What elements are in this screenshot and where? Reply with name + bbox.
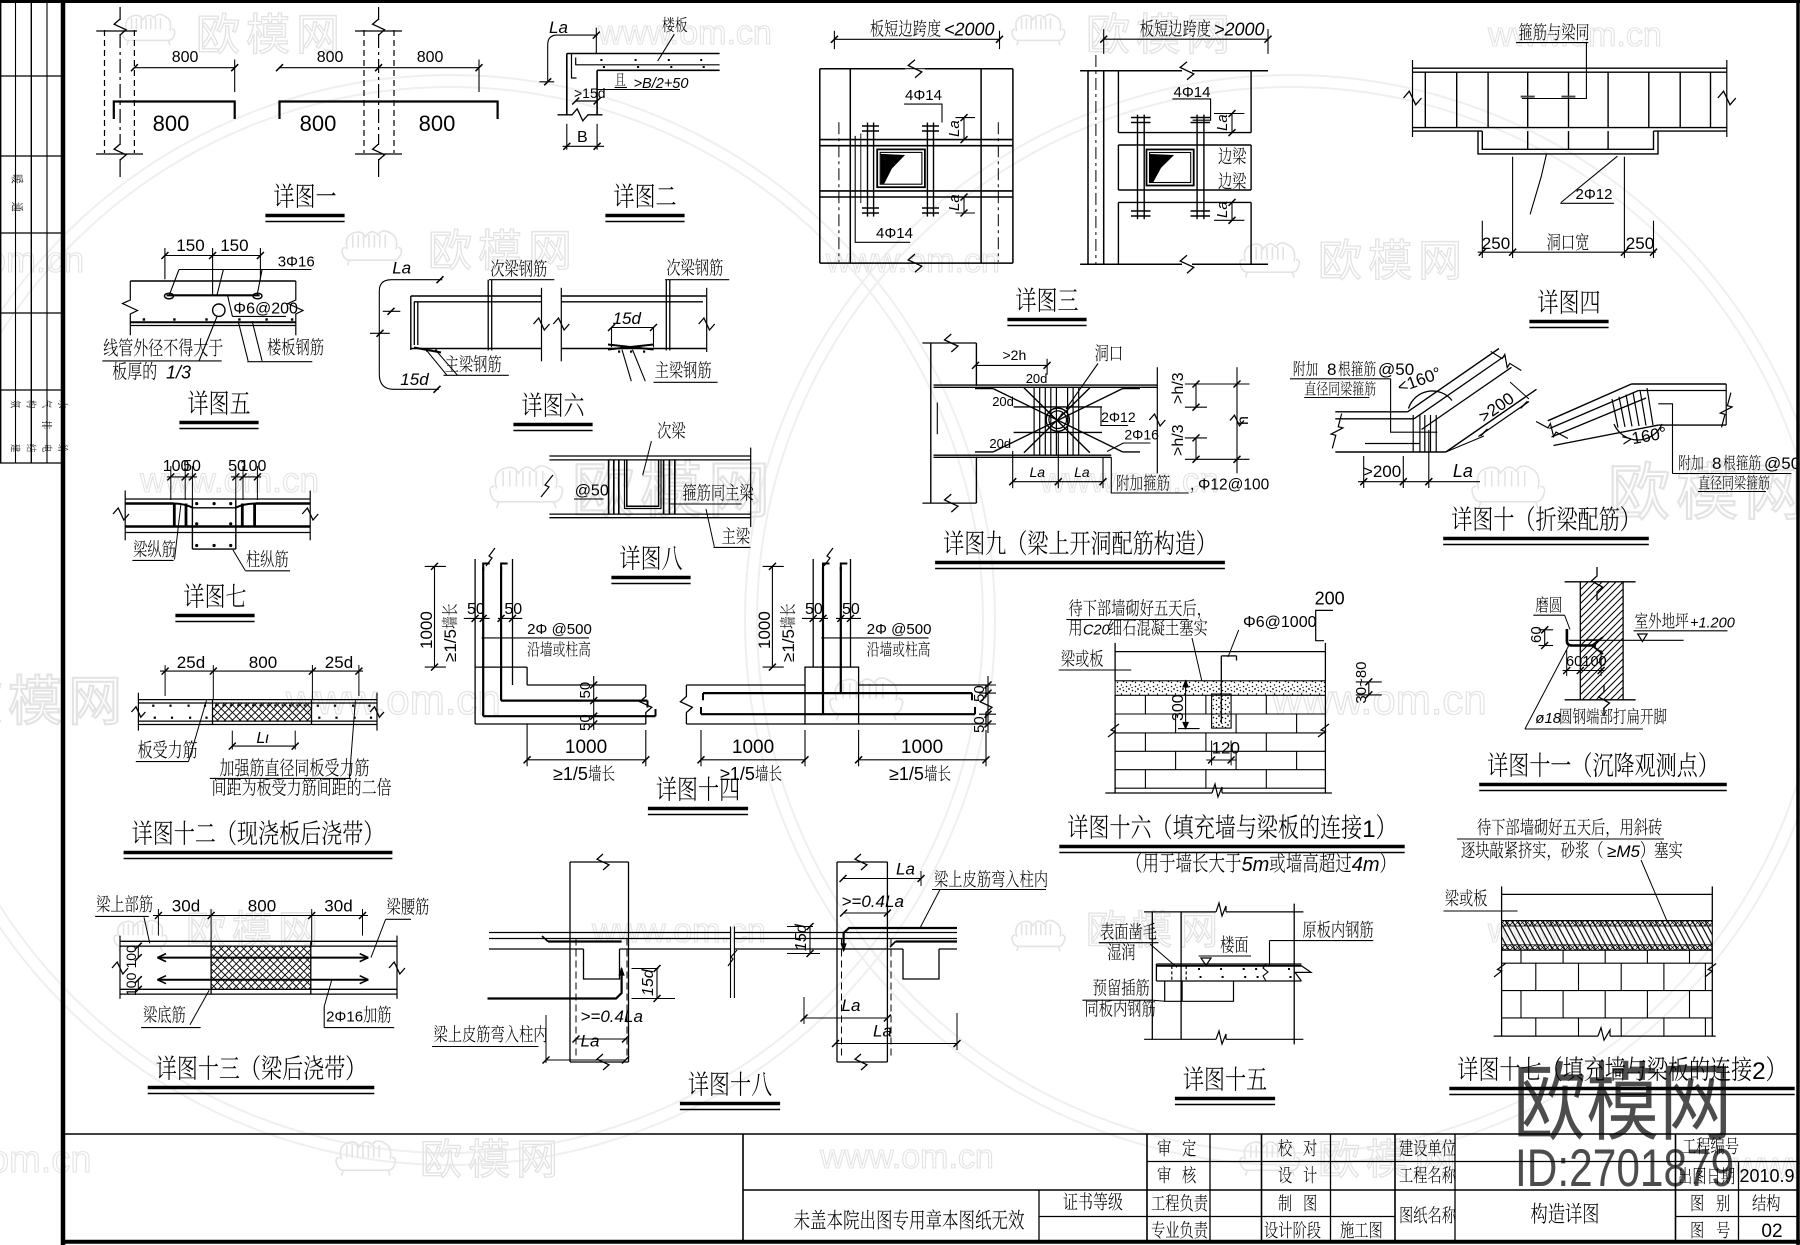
svg-text:Lι: Lι xyxy=(256,730,269,747)
detail17 brick joints row2 xyxy=(1535,963,1537,990)
svg-text:La: La xyxy=(1453,461,1473,481)
detail13 梁底筋 leader xyxy=(190,990,209,1024)
detail11 top break zigzag xyxy=(1592,567,1603,600)
detail14R left band end break xyxy=(680,685,692,724)
detail4 label underline and leader xyxy=(1516,42,1588,44)
detail5 rebar leader slants xyxy=(169,270,179,296)
svg-text:1/3: 1/3 xyxy=(166,363,191,383)
detail10L bent bar horizontal leg xyxy=(1365,443,1420,445)
detail14L wall inner vertical xyxy=(512,559,514,685)
svg-text:800: 800 xyxy=(248,897,276,916)
detail3 right La dim top xyxy=(1231,114,1233,133)
detail14R wall top break xyxy=(824,548,833,566)
svg-text:4Φ14: 4Φ14 xyxy=(876,225,913,242)
detail3 right La label top rotated xyxy=(1214,114,1231,131)
detail11 wall top cap xyxy=(1565,581,1636,583)
detail15 slab left end cap xyxy=(1155,964,1157,981)
detail15 原板内钢筋 leader xyxy=(1270,940,1302,942)
detail10L beam inner rebar line xyxy=(1335,418,1414,420)
detail5 slab bottom thin line xyxy=(130,325,295,327)
watermark row6 right sofa logo xyxy=(1240,1141,1299,1176)
svg-text:2Φ16: 2Φ16 xyxy=(1124,427,1159,443)
detail18L thick bottom rebar bent up xyxy=(488,969,622,999)
detail15 right vertical xyxy=(1293,904,1295,1045)
detail13 rotated label 100 upper xyxy=(123,945,139,969)
detail18R 15d dim xyxy=(809,927,811,954)
detail12 label 加强筋直径同板受力筋 xyxy=(220,758,234,776)
svg-text:60: 60 xyxy=(1528,626,1545,643)
detail18R column top cap with break xyxy=(837,861,887,863)
detail18L rotated label 15d xyxy=(640,968,657,996)
detail18R label 梁上皮筋弯入柱内 xyxy=(935,870,948,887)
detail3 right slab outer verticals xyxy=(1087,71,1089,265)
detail1 left column top cap xyxy=(96,30,137,32)
detail4 beam left end edge with break xyxy=(1412,60,1414,137)
svg-text:Φ6@200: Φ6@200 xyxy=(233,301,298,318)
detail17 label 梁或板 xyxy=(1445,889,1458,906)
watermark circle left xyxy=(0,75,995,1165)
svg-text:Φ12@100: Φ12@100 xyxy=(1198,477,1270,494)
detail3 right top dim xyxy=(1104,38,1268,40)
svg-text:4m: 4m xyxy=(1352,854,1380,876)
svg-text:≥1/5: ≥1/5 xyxy=(889,764,924,784)
svg-text:La: La xyxy=(1214,114,1231,131)
detail title 详图十四 xyxy=(657,776,677,801)
detail7 beam right end with break xyxy=(309,491,311,541)
detail6 vertical dim bars left xyxy=(383,310,401,312)
detail11 observation bolt bent bar xyxy=(1567,629,1596,646)
title block value 结构 xyxy=(1753,1194,1766,1211)
detail12 left end edge with break xyxy=(137,693,139,731)
detail10R label line2 直径同梁箍筋 xyxy=(1699,475,1710,489)
svg-text:2Φ12: 2Φ12 xyxy=(1576,186,1613,203)
detail14L rebar B vertical xyxy=(500,567,502,701)
detail4 drop stirrups xyxy=(1527,131,1529,149)
detail3 right slab panel edges right xyxy=(1250,71,1252,133)
svg-text:La: La xyxy=(581,1032,600,1051)
detail3 left slab outer verticals xyxy=(819,69,821,263)
detail title 详图十六 填充墙与梁板的连接1 xyxy=(1068,814,1088,839)
detail7 dims top left 100 50 xyxy=(167,476,197,478)
svg-text:La: La xyxy=(549,18,568,37)
svg-text:8: 8 xyxy=(1327,360,1336,379)
detail13 dim ext lines xyxy=(157,909,159,936)
detail5 slab bottom thick line xyxy=(130,321,295,323)
detail16 wall bottom cut line with break xyxy=(1105,792,1212,794)
detail8 label 主梁 xyxy=(722,527,735,543)
svg-text:50: 50 xyxy=(183,458,201,475)
detail14L rebar A end stub xyxy=(655,709,657,716)
detail11 elevation underline xyxy=(1634,630,1728,632)
title block cell 图别 xyxy=(1692,1194,1704,1211)
watermark row3 sofa logo xyxy=(490,466,563,508)
detail4 bottom dim line xyxy=(1478,251,1656,253)
svg-text:>=0.4La: >=0.4La xyxy=(842,892,904,911)
detail14R rebar B top hook xyxy=(841,564,848,572)
detail15 label 表面凿毛 xyxy=(1100,923,1113,941)
detail10R bend stirrups xyxy=(1612,399,1618,428)
detail10R label underline xyxy=(1673,473,1792,475)
detail2 wall left edge xyxy=(566,54,568,115)
detail11 elevation triangle xyxy=(1638,634,1647,642)
detail9 附加箍筋 leader xyxy=(1111,457,1188,493)
detail15 wall left pair verticals xyxy=(1151,912,1153,1039)
detail12 right leader xyxy=(349,700,355,778)
detail10R incline rebar1 xyxy=(1550,391,1639,429)
title block cell 施工图 xyxy=(1341,1221,1354,1238)
detail6 middle break line left xyxy=(541,288,543,362)
title block top line xyxy=(63,1133,1798,1135)
detail3 left opening with wedge xyxy=(877,149,925,187)
svg-text:www.om.cn: www.om.cn xyxy=(819,1138,994,1176)
detail16 rebar phi6 vertical xyxy=(1220,656,1222,723)
detail10L incline top xyxy=(1408,349,1499,412)
detail7 column rebar dots xyxy=(195,502,198,505)
detail14L label 沿墙或柱高 xyxy=(528,642,540,657)
detail13 upper rebar with arrow ends xyxy=(157,957,368,959)
detail3 right 4phi14 leader xyxy=(1172,99,1210,120)
detail9 label 洞口 xyxy=(1095,344,1108,361)
detail3 right slab panel edges left xyxy=(1117,71,1119,133)
detail1 right dim line 800 800 xyxy=(280,67,480,69)
detail7 beam bottom thin line xyxy=(125,532,310,534)
detail15 top cap with break xyxy=(1144,911,1216,913)
detail6 beam top line1 xyxy=(411,295,542,297)
detail12 crosshatch band xyxy=(213,703,312,721)
detail18L thick top rebar segment xyxy=(548,940,622,942)
detail18L top rebar end tick xyxy=(542,936,548,942)
svg-text:30d: 30d xyxy=(172,897,200,916)
detail18R La dim bottom left xyxy=(804,1017,887,1019)
detail11 label 室外地坪 +1.200 xyxy=(1635,612,1647,628)
detail3 right panel horizontal lines xyxy=(1118,132,1251,134)
detail9 horizontal bars 2phi12 xyxy=(1014,406,1102,408)
detail15 bottom cap with break xyxy=(1144,1038,1216,1040)
detail13 beam top double line xyxy=(120,940,397,942)
detail5 conduit circle xyxy=(213,304,225,316)
detail13 right end edge with break xyxy=(396,936,398,999)
detail10L dim >200 horizontal xyxy=(1358,481,1480,483)
detail17 brick joints row1 xyxy=(1520,950,1522,963)
watermark circle right xyxy=(745,75,1800,1165)
detail14R rebar B vertical xyxy=(840,567,842,693)
detail2 B dim ext lines xyxy=(566,124,568,150)
detail7 rebar dip left xyxy=(174,504,193,508)
detail10R incline top xyxy=(1548,384,1632,421)
detail10L left end break xyxy=(1331,414,1343,449)
detail18L U recess xyxy=(584,949,620,979)
detail15 原板内钢筋 underline xyxy=(1301,940,1373,942)
svg-text:4Φ14: 4Φ14 xyxy=(905,87,942,104)
svg-text:800: 800 xyxy=(419,111,456,136)
detail10L incline dim >200 xyxy=(1478,402,1529,437)
detail2 slab rebar line with left hook xyxy=(576,58,720,65)
detail3 label 边梁 lower xyxy=(1218,172,1231,189)
detail16 brick joints xyxy=(1144,695,1146,714)
watermark row5 right sofa logo xyxy=(1012,920,1065,951)
detail3 left La label top rotated xyxy=(946,120,963,137)
svg-text:La: La xyxy=(1030,464,1046,480)
detail18R column bottom cap with break xyxy=(837,1061,887,1063)
svg-text:300: 300 xyxy=(1170,694,1187,721)
detail title 详图五 xyxy=(188,390,208,415)
svg-text:250: 250 xyxy=(1482,234,1510,253)
title block row line 2 xyxy=(1147,1161,1798,1163)
detail15 楼面 elevation triangle xyxy=(1201,958,1211,966)
detail18L dim La xyxy=(546,1059,626,1061)
detail6 label 主梁钢筋 left xyxy=(445,355,458,371)
detail1 right column dashed edge lines xyxy=(363,30,365,153)
detail6 beam top line2 xyxy=(414,301,542,303)
detail6 La bent dim left xyxy=(379,280,442,390)
detail7 rebar dip right xyxy=(236,504,257,508)
detail16 label 梁或板 xyxy=(1061,650,1074,667)
detail15 label 预留插筋 xyxy=(1093,979,1106,996)
detail16 rotated label 30~80 xyxy=(1353,661,1370,703)
detail16 phi6 leader xyxy=(1228,630,1239,657)
detail14L rebar B horizontal leg xyxy=(501,699,647,701)
detail3 left beam horizontal double lines lower xyxy=(820,190,1013,192)
detail14R label 沿墙或柱高 xyxy=(867,642,879,657)
svg-text:La: La xyxy=(1214,201,1231,218)
detail11 磨圆 leader xyxy=(1565,615,1570,629)
detail14L corner block top xyxy=(475,666,527,668)
svg-text:h: h xyxy=(1235,416,1252,425)
detail10L incline rebar2 xyxy=(1422,367,1512,429)
detail13 label 梁上部筋 xyxy=(97,895,110,912)
detail18R thick lower rebar segment xyxy=(896,940,958,942)
detail3 left top dim xyxy=(834,38,999,40)
svg-text:50: 50 xyxy=(467,601,485,618)
svg-text:800: 800 xyxy=(317,49,344,66)
title block row line 4a xyxy=(1039,1216,1262,1218)
detail7 beam top thin line xyxy=(125,498,310,500)
detail1 right column top cap xyxy=(355,30,402,32)
detail11 label 磨圆 xyxy=(1536,596,1548,613)
detail12 slab bottom double line xyxy=(138,720,377,722)
detail17 wall left edge break xyxy=(1494,964,1506,978)
title block cell 出图日期 xyxy=(1679,1167,1691,1184)
detail18L beam bottom left xyxy=(489,948,584,950)
detail7 beam top thick rebar right xyxy=(256,502,310,505)
svg-text:≥1/5: ≥1/5 xyxy=(779,629,798,662)
detail14R rotated 50 label lower xyxy=(971,716,988,733)
detail13 2phi16 bracket xyxy=(323,1007,325,1028)
detail7 dims top right 50 100 xyxy=(231,476,261,478)
detail2 slab dots xyxy=(600,59,602,61)
detail14R rebar A top hook xyxy=(823,564,830,572)
detail13 label 梁腰筋 xyxy=(387,898,400,915)
detail3 left La label bottom rotated xyxy=(946,194,963,211)
detail6 主梁钢筋 right leaders xyxy=(622,350,631,382)
watermark row2 right sofa logo xyxy=(1240,243,1299,278)
detail17 brick joints row3 xyxy=(1520,991,1522,1018)
detail15 dowel U bar below slab xyxy=(1165,981,1234,1001)
detail10R beam top line xyxy=(1631,383,1726,385)
svg-text:20d: 20d xyxy=(1026,371,1048,386)
detail9 rotated label h xyxy=(1235,416,1252,425)
detail10L label underline xyxy=(1290,378,1391,380)
detail12 label 间距为板受力筋间距的二倍 xyxy=(213,778,225,796)
detail12 band top dots xyxy=(215,704,217,706)
detail7 column outline xyxy=(191,500,193,549)
detail14L rebar B top hook xyxy=(501,564,508,572)
detail3 left 4phi14 bottom leader xyxy=(855,136,910,242)
detail18R rotated label 15d xyxy=(793,923,810,951)
detail title 详图六 xyxy=(522,392,542,417)
svg-text:2Φ16: 2Φ16 xyxy=(326,1009,363,1026)
detail3 left vertical rebar pair A xyxy=(867,123,869,217)
svg-text:100: 100 xyxy=(240,458,267,475)
detail18R U recess xyxy=(903,949,939,979)
detail18L label 梁上皮筋弯入柱内 xyxy=(434,1025,447,1042)
detail3 left top dim label xyxy=(870,20,883,37)
detail16 slab verticals xyxy=(1114,643,1116,681)
detail1 left column centerline with breaks xyxy=(119,7,121,20)
detail4 stirrup hook dashes xyxy=(1521,96,1535,98)
svg-text:20d: 20d xyxy=(992,394,1014,409)
detail9 opening circle xyxy=(1046,408,1069,431)
detail5 label 楼板钢筋 xyxy=(267,338,280,355)
detail7 柱纵筋 leader xyxy=(233,550,245,571)
detail2 wall right edge xyxy=(596,70,598,115)
detail14R bottom dim 1000 left xyxy=(701,759,805,761)
detail10R label leader xyxy=(1658,404,1672,474)
detail15 表面凿毛 leader xyxy=(1150,944,1177,967)
svg-text:25d: 25d xyxy=(177,653,205,672)
detail18L column bottom cap with break xyxy=(570,1061,629,1063)
detail17 note line2 逐块敲紧挤实砂浆M5塞实 xyxy=(1461,841,1474,858)
detail2 B dim line xyxy=(563,145,605,147)
detail10R right end vertical with break xyxy=(1725,384,1727,425)
detail11 wall right edge xyxy=(1622,582,1624,700)
detail17 slab bottom line xyxy=(1502,920,1713,922)
detail title 详图四 xyxy=(1538,289,1558,314)
detail10R beam bottom line xyxy=(1658,424,1726,426)
detail11 dim 60 vertical xyxy=(1544,630,1546,646)
detail17 wall edges xyxy=(1501,950,1503,1036)
detail3 right La label bottom rotated xyxy=(1214,201,1231,218)
svg-text:15d: 15d xyxy=(613,309,642,328)
detail10R beam inner rebar xyxy=(1639,390,1727,392)
detail3 left La dim bottom xyxy=(963,197,965,213)
svg-text:ø18: ø18 xyxy=(1535,710,1562,727)
svg-text:2010.9: 2010.9 xyxy=(1740,1166,1795,1186)
detail15 slab bottom line xyxy=(1156,980,1301,982)
watermark row4 brand left edge xyxy=(0,674,1,724)
detail3 right rebar pair A xyxy=(1137,115,1139,220)
svg-text:15d: 15d xyxy=(640,968,657,996)
detail18L dashed column faces xyxy=(575,939,577,1058)
detail10R angle arc xyxy=(1614,424,1662,440)
detail5 conduit leader xyxy=(199,317,217,362)
detail11 bolt cross tick xyxy=(1586,639,1599,641)
detail7 梁纵筋 leader xyxy=(175,505,181,560)
detail7 beam top thick rebar left xyxy=(125,502,173,505)
svg-text:om.cn: om.cn xyxy=(0,1139,91,1181)
detail3 left wall centerlines dashdot xyxy=(838,122,840,261)
sheet outer border right xyxy=(1796,0,1800,1245)
detail6 right secondary beam rebar pair xyxy=(665,280,667,351)
detail9 column right edge lower xyxy=(975,457,977,504)
detail15 表面凿毛 underline xyxy=(1099,942,1159,944)
detail10L angle arc xyxy=(1409,391,1453,409)
svg-text:800: 800 xyxy=(153,111,190,136)
detail3 left thin ext line xyxy=(860,134,862,204)
detail5 label 线管外径不得大于 xyxy=(104,338,118,356)
detail2 wall rebar hook xyxy=(572,54,577,79)
detail title 详图一 xyxy=(274,183,294,208)
svg-text:5m: 5m xyxy=(1242,854,1270,876)
big gray ID text bottom right xyxy=(1515,1140,1734,1199)
detail9 洞口 leader xyxy=(1066,364,1098,410)
detail3 right top dim label xyxy=(1140,20,1153,37)
detail title 详图二 xyxy=(614,183,634,208)
detail18L column top cap with break xyxy=(570,861,629,863)
detail12 rebar dots right xyxy=(317,705,319,707)
detail6 label 次梁钢筋 right xyxy=(667,258,680,275)
watermark row4 sofa xyxy=(830,678,903,720)
detail9 right dim bars xyxy=(1185,383,1250,385)
detail10L incline end break xyxy=(1491,352,1522,371)
svg-text:30d: 30d xyxy=(324,897,352,916)
svg-text:www.om.cn: www.om.cn xyxy=(1487,16,1662,54)
title block cell 图纸名称 xyxy=(1401,1206,1413,1223)
detail6 left end vertical xyxy=(410,296,412,350)
detail16 slot with stipple xyxy=(1212,694,1232,728)
detail15 label 湿润 xyxy=(1108,943,1121,960)
svg-text:150: 150 xyxy=(176,236,204,255)
detail14R center block xyxy=(805,667,859,724)
title block cell 校对 xyxy=(1278,1139,1292,1156)
svg-text:>200: >200 xyxy=(1363,462,1401,481)
svg-text:>=0.4La: >=0.4La xyxy=(581,1007,643,1026)
detail15 new-old boundary zigzag xyxy=(1263,964,1268,981)
detail1 left column dashed edge lines xyxy=(104,30,106,153)
detail11 bottom break zigzag xyxy=(1599,685,1610,716)
detail10L bend stirrups xyxy=(1412,415,1414,452)
detail12 slab top double line xyxy=(138,699,377,701)
detail17 slab top line xyxy=(1502,893,1713,895)
svg-text:>2h: >2h xyxy=(1003,347,1027,363)
detail18R La dim top xyxy=(843,878,921,880)
detail14L wall top break xyxy=(486,548,495,566)
svg-text:25d: 25d xyxy=(325,653,353,672)
watermark row3 right sofa logo xyxy=(1472,466,1545,508)
detail3 right slab top edge with break xyxy=(1080,70,1182,72)
detail14R rebar A vertical xyxy=(822,567,824,714)
detail3 right La dim bottom xyxy=(1231,202,1233,220)
detail13 left vertical dims 100 100 xyxy=(137,946,139,958)
svg-text:15d: 15d xyxy=(400,370,429,389)
detail3 left vertical rebar pair B xyxy=(926,123,928,217)
detail13 label 梁底筋 xyxy=(144,1006,157,1023)
svg-text:La: La xyxy=(1074,464,1090,480)
detail18R dashed column faces xyxy=(841,939,843,1058)
detail13 梁上部筋 leader xyxy=(144,917,150,943)
detail7 label 梁纵筋 xyxy=(134,540,147,557)
detail10L label line2 直径同梁箍筋 xyxy=(1305,381,1316,395)
detail14L rebar A horizontal leg xyxy=(483,715,655,717)
detail7 stirrup bars left xyxy=(173,504,176,527)
svg-text:C20: C20 xyxy=(1083,623,1110,639)
detail17 note leader xyxy=(1641,860,1667,921)
detail15 dowel ticks in slab xyxy=(1171,966,1173,981)
detail16 wall right edge break xyxy=(1318,724,1329,737)
detail9 column inner rebar line xyxy=(936,403,938,435)
detail14L rebar A top hook xyxy=(483,564,490,572)
svg-text:La: La xyxy=(842,996,861,1015)
